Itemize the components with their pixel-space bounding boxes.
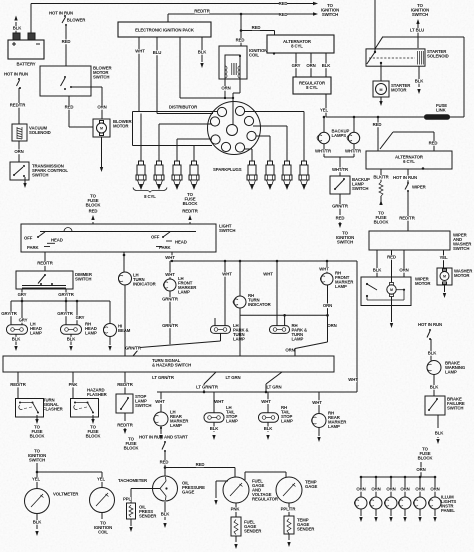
- stop lamp switch S7: [116, 394, 151, 413]
- wire LH turn ind feed: [123, 252, 126, 272]
- svg-text:RED/TR: RED/TR: [117, 382, 133, 387]
- vacuum solenoid SOL1: [12, 124, 51, 141]
- ground washer motor: [443, 285, 446, 298]
- svg-text:LAMP: LAMP: [233, 337, 245, 342]
- ground LH head lamp: [12, 334, 22, 351]
- svg-text:PANEL: PANEL: [441, 508, 455, 513]
- illum lamp L18: [369, 497, 382, 509]
- turn signal hazard switch S6: [3, 356, 334, 372]
- svg-text:SWITCH: SWITCH: [75, 277, 91, 282]
- fuel gage sender R2: [231, 517, 262, 536]
- wire stop switch drop: [117, 372, 133, 394]
- svg-text:WHT: WHT: [261, 399, 271, 404]
- svg-text:6 CYL: 6 CYL: [403, 159, 415, 164]
- RH tail stop lamp L12: [259, 405, 294, 424]
- LH rear marker lamp L10: [153, 410, 189, 429]
- svg-text:RED/TR: RED/TR: [10, 103, 26, 108]
- svg-text:DISTRIBUTOR: DISTRIBUTOR: [169, 105, 198, 110]
- svg-text:WHT: WHT: [319, 267, 329, 272]
- svg-text:LINK: LINK: [436, 108, 447, 113]
- wire plug feed 4: [193, 146, 195, 162]
- svg-text:LT BLU: LT BLU: [410, 28, 424, 33]
- svg-text:HEAD: HEAD: [175, 240, 187, 245]
- label TO FUSE BLOCK illum: [418, 447, 434, 461]
- wire RH rear marker drop: [312, 392, 322, 414]
- wire LH turn ind down: [124, 285, 126, 356]
- light switch internals right: [151, 232, 187, 250]
- svg-text:ORN: ORN: [400, 487, 409, 492]
- svg-text:WHT: WHT: [263, 272, 273, 277]
- fuse link FL1: [424, 103, 450, 120]
- svg-text:ORN: ORN: [416, 467, 425, 472]
- svg-text:GRY/TR: GRY/TR: [58, 292, 74, 297]
- wire battery to top rail: [31, 4, 315, 34]
- svg-text:GRN/TR: GRN/TR: [162, 297, 179, 302]
- washer motor M4: [437, 268, 473, 285]
- svg-text:RED/TR: RED/TR: [10, 382, 26, 387]
- svg-text:BLK: BLK: [435, 431, 445, 436]
- label HOT IN RUN blower feed: [49, 11, 86, 23]
- wire plug feed 3: [177, 139, 212, 161]
- spark plug P3: [172, 161, 182, 189]
- wire alt1 ORN: [306, 53, 315, 77]
- wire distributor loop left: [133, 112, 213, 146]
- svg-text:RED/TR: RED/TR: [399, 216, 415, 221]
- wire distributor WHT bundle: [139, 112, 217, 114]
- wire oil gauge feed: [160, 451, 169, 476]
- switch wiper feed: [405, 182, 427, 192]
- ground LH tail: [210, 422, 220, 440]
- svg-text:RED: RED: [252, 25, 261, 30]
- label TACHOMETER: [118, 478, 148, 483]
- svg-text:SWITCH: SWITCH: [93, 75, 109, 80]
- svg-text:FLASHER: FLASHER: [87, 392, 108, 397]
- svg-text:RED: RED: [279, 1, 288, 6]
- svg-text:PARK: PARK: [159, 245, 171, 250]
- svg-text:ORN: ORN: [371, 487, 380, 492]
- svg-text:HEAD: HEAD: [51, 238, 63, 243]
- svg-text:BLK/TR: BLK/TR: [373, 175, 389, 180]
- wiper motor M3: [361, 277, 431, 306]
- wire wiper switch feed: [399, 191, 415, 231]
- wire LH head feed 2: [19, 301, 28, 325]
- ground illum lamp 2: [374, 509, 377, 522]
- wire WHT bus: [170, 260, 357, 262]
- label SPARKPLUGS: [213, 167, 242, 172]
- wire LH park turn feed: [222, 260, 232, 326]
- svg-text:M: M: [390, 288, 393, 292]
- svg-text:LT GRN/TR: LT GRN/TR: [196, 385, 219, 390]
- hi beam indicator L7: [103, 324, 130, 337]
- svg-text:MOTOR: MOTOR: [391, 88, 407, 93]
- ground illum lamp 4: [403, 509, 406, 522]
- fuel gauge G4: [223, 477, 279, 503]
- svg-text:BLK: BLK: [322, 63, 332, 68]
- svg-text:RED: RED: [336, 216, 345, 221]
- ground temp sender: [287, 534, 290, 547]
- svg-text:HOT IN RUN: HOT IN RUN: [393, 175, 417, 180]
- label HOT IN RUN brake: [418, 322, 442, 327]
- svg-text:SWITCH: SWITCH: [337, 240, 353, 245]
- svg-text:COIL: COIL: [249, 53, 259, 58]
- wire rear lamp bus: [157, 385, 357, 392]
- brake failure switch S10: [425, 396, 465, 415]
- svg-text:PNK: PNK: [69, 382, 79, 387]
- svg-text:WHT: WHT: [348, 377, 358, 382]
- svg-text:8 CYL: 8 CYL: [144, 194, 156, 199]
- svg-text:RED/TR: RED/TR: [182, 209, 198, 214]
- wire RH head feed 1: [57, 301, 73, 325]
- svg-text:RED: RED: [89, 209, 98, 214]
- illum lamp L20: [398, 497, 411, 509]
- svg-text:LAMP: LAMP: [30, 331, 42, 336]
- wire brake lamp feed: [428, 339, 438, 361]
- svg-text:SWITCH: SWITCH: [453, 246, 469, 251]
- wire temp sender: [281, 503, 297, 516]
- svg-text:SOLENOID: SOLENOID: [29, 130, 51, 135]
- tachometer G3: [90, 488, 115, 513]
- illum lamp L17: [354, 497, 367, 509]
- wiper washer switch S9: [369, 231, 472, 251]
- ignition coil T1: [219, 46, 267, 79]
- svg-text:RED: RED: [279, 12, 288, 17]
- wire light switch feed left: [86, 194, 102, 225]
- wire to vacuum solenoid: [10, 88, 26, 124]
- wire brake switch out: [435, 415, 445, 444]
- label DISTRIBUTOR: [169, 105, 198, 110]
- wire solenoid feed: [375, 0, 383, 52]
- wire fuel to temp link: [245, 472, 286, 480]
- svg-text:M: M: [380, 88, 383, 92]
- wire headlamp bus: [11, 300, 110, 303]
- blower motor switch S3: [40, 66, 112, 97]
- svg-text:BLK: BLK: [12, 336, 22, 341]
- wire WHT riser: [348, 261, 358, 392]
- svg-text:SWITCH: SWITCH: [352, 186, 368, 191]
- svg-text:GRY: GRY: [19, 318, 28, 323]
- wire ORN park bus: [240, 314, 328, 326]
- svg-text:GRY: GRY: [18, 292, 27, 297]
- ground arrow trans switch: [23, 177, 26, 188]
- svg-text:OFF: OFF: [24, 236, 33, 241]
- svg-text:SWITCH: SWITCH: [447, 406, 463, 411]
- wire blower switch RED out: [65, 96, 93, 127]
- wire LT GRN diagonal: [225, 372, 282, 393]
- RH rear marker lamp L13: [311, 411, 347, 430]
- svg-text:BLOWER: BLOWER: [67, 18, 86, 23]
- svg-text:MOTOR: MOTOR: [454, 273, 470, 278]
- svg-text:RED: RED: [373, 122, 382, 127]
- svg-text:WHT: WHT: [312, 400, 322, 405]
- svg-text:COIL: COIL: [98, 530, 108, 535]
- label RED top rail: [279, 1, 288, 6]
- svg-text:ORN: ORN: [415, 487, 424, 492]
- svg-text:BLK: BLK: [373, 268, 383, 273]
- wire light switch feed right: [183, 192, 199, 224]
- svg-text:BLK: BLK: [161, 512, 171, 517]
- svg-text:LAMP: LAMP: [178, 290, 190, 295]
- wire dimmer GRY: [18, 289, 27, 301]
- wire washer YEL: [439, 250, 448, 269]
- wire backup lamp stubs: [323, 116, 356, 132]
- backup lamp switch S8: [330, 176, 370, 194]
- svg-text:RED: RED: [160, 460, 169, 465]
- svg-text:SOLENOID: SOLENOID: [427, 54, 449, 59]
- wire illum bus: [360, 476, 437, 479]
- svg-text:BLOCK: BLOCK: [418, 456, 434, 461]
- battery BLK ground: [13, 16, 23, 34]
- wire dimmer feed: [37, 252, 53, 271]
- svg-text:LAMP: LAMP: [85, 331, 97, 336]
- svg-text:GRY: GRY: [292, 63, 301, 68]
- svg-text:GAGE: GAGE: [182, 490, 194, 495]
- blower motor M1: [93, 119, 132, 137]
- svg-text:ORN: ORN: [430, 487, 439, 492]
- svg-text:FLASHER: FLASHER: [43, 407, 64, 412]
- oil press sender R1: [127, 503, 158, 519]
- wire illum feed: [416, 462, 425, 477]
- svg-text:PARK: PARK: [27, 245, 39, 250]
- wire alt2 fuse stub: [374, 196, 390, 225]
- ground voltmeter: [33, 514, 43, 537]
- wire illum lamp drop 2: [371, 477, 380, 497]
- RH front marker lamp L4: [320, 271, 354, 290]
- wire TS flasher drop: [10, 372, 26, 398]
- wire LH front marker down: [162, 291, 179, 344]
- LH tail stop lamp L11: [204, 405, 238, 424]
- wire RH front marker feed: [319, 260, 329, 273]
- svg-text:RED: RED: [62, 39, 71, 44]
- svg-text:LAMPS: LAMPS: [332, 133, 347, 138]
- wire plug feed 2: [159, 124, 212, 161]
- wire illum lamp drop 4: [400, 477, 409, 497]
- svg-text:BATTERY: BATTERY: [16, 62, 35, 67]
- svg-text:ORN: ORN: [14, 149, 23, 154]
- wire GRN/TR diagonal: [125, 334, 220, 357]
- wire alt1 GRY: [292, 53, 301, 77]
- svg-text:ORN: ORN: [221, 86, 230, 91]
- LH front marker lamp L2: [163, 276, 197, 295]
- electronic ignition pack U1: [118, 22, 211, 37]
- wire solenoid BLK: [415, 66, 425, 94]
- turn signal flasher F1: [16, 398, 64, 418]
- svg-text:BLOCK: BLOCK: [183, 201, 199, 206]
- svg-text:HOT IN RUN: HOT IN RUN: [4, 72, 28, 77]
- svg-text:BLK: BLK: [415, 79, 425, 84]
- wire backup lamp merge: [315, 144, 362, 176]
- svg-text:GRY/TR: GRY/TR: [57, 311, 73, 316]
- ground fuel sender: [234, 536, 237, 549]
- illum lamp L22: [428, 497, 441, 509]
- svg-text:BLK: BLK: [33, 520, 43, 525]
- wire solenoid to trans switch: [14, 141, 23, 162]
- resistor R4: [379, 182, 383, 196]
- svg-text:REGULATOR: REGULATOR: [252, 497, 279, 502]
- svg-text:RED/TR: RED/TR: [117, 423, 133, 428]
- svg-text:BLU: BLU: [153, 50, 162, 55]
- svg-text:BLOCK: BLOCK: [124, 446, 140, 451]
- svg-text:BLOCK: BLOCK: [30, 434, 46, 439]
- svg-text:ORN: ORN: [97, 105, 106, 110]
- voltmeter G2: [25, 489, 80, 514]
- svg-text:GRN/TR: GRN/TR: [162, 323, 179, 328]
- svg-text:YEL: YEL: [97, 477, 106, 482]
- ground illum lamp 5: [418, 509, 421, 522]
- transmission spark control switch S2: [10, 162, 68, 180]
- starter motor M2: [373, 81, 411, 97]
- svg-text:YEL: YEL: [439, 255, 448, 260]
- svg-text:RED: RED: [387, 255, 396, 260]
- wire brake switch feed: [430, 375, 440, 397]
- switch hot-in-run-start: [162, 441, 166, 452]
- wire RH turn ind down: [239, 308, 241, 356]
- temp gage sender R3: [284, 516, 315, 534]
- wire LH head feed 1: [1, 301, 17, 325]
- wire pack BLU: [153, 37, 162, 114]
- svg-text:MOTOR: MOTOR: [415, 281, 431, 286]
- svg-text:HOT IN RUN: HOT IN RUN: [49, 11, 73, 16]
- svg-text:BLK: BLK: [67, 336, 77, 341]
- svg-text:BEAM: BEAM: [118, 328, 131, 333]
- wire red bus gauges: [165, 462, 235, 468]
- svg-text:BLOCK: BLOCK: [374, 220, 390, 225]
- wire dimmer GRY/TR: [58, 289, 74, 301]
- svg-text:LAMP: LAMP: [328, 424, 340, 429]
- wire WHT drop: [165, 252, 175, 261]
- ground wiper motor: [390, 297, 393, 329]
- svg-text:INDICATOR: INDICATOR: [133, 282, 157, 287]
- svg-text:SWITCH: SWITCH: [135, 403, 151, 408]
- wire voltmeter bus: [37, 463, 102, 472]
- svg-text:YEL: YEL: [32, 477, 41, 482]
- svg-text:LAMP: LAMP: [335, 284, 347, 289]
- spark plug P5: [247, 161, 257, 189]
- wire pack BLK stub: [198, 37, 208, 68]
- svg-text:LAMP: LAMP: [445, 370, 457, 375]
- wire illum lamp drop 6: [430, 477, 439, 497]
- illum lamp L19: [384, 497, 397, 509]
- label 8 CYL brace: [133, 188, 167, 200]
- wire pack third: [180, 37, 233, 98]
- svg-text:8 CYL: 8 CYL: [306, 85, 318, 90]
- wire plug feed 1: [140, 114, 142, 162]
- spark plug P8: [299, 161, 309, 189]
- svg-text:BLK: BLK: [430, 385, 440, 390]
- wire RH tail drop: [261, 392, 271, 413]
- backup lamp L15: [331, 129, 360, 144]
- brake warning lamp L16: [427, 361, 466, 375]
- oil pressure gauge G1: [153, 476, 206, 501]
- wire plug feed 5: [244, 112, 304, 162]
- svg-text:GRN/TR: GRN/TR: [125, 346, 142, 351]
- wire LT BLU: [410, 19, 425, 48]
- svg-text:WHT/TR: WHT/TR: [315, 149, 332, 154]
- label HOT IN RUN AND START: [139, 435, 188, 440]
- svg-text:PPL: PPL: [123, 497, 132, 502]
- wire plug feed 6: [253, 126, 287, 161]
- LH turn indicator L1: [118, 272, 156, 287]
- svg-text:WHT: WHT: [165, 255, 175, 260]
- LH park turn lamp L8: [211, 318, 249, 342]
- svg-text:RED/TR: RED/TR: [37, 261, 53, 266]
- wire blower switch ORN out: [71, 87, 107, 119]
- wire stop switch out: [117, 413, 139, 451]
- wire blower feed: [62, 26, 71, 66]
- svg-text:VOLTMETER: VOLTMETER: [53, 492, 79, 497]
- temp gauge G5: [276, 477, 317, 503]
- svg-text:GRY/TR: GRY/TR: [1, 311, 17, 316]
- ground LH rear marker: [159, 426, 162, 440]
- svg-text:M: M: [443, 275, 446, 279]
- label HOT IN RUN left: [4, 72, 28, 77]
- wire plug feed 7: [256, 136, 270, 161]
- wire fuel gauge case: [214, 481, 228, 505]
- distributor D1: [208, 102, 261, 155]
- svg-text:HOT IN RUN: HOT IN RUN: [418, 322, 442, 327]
- ground illum lamp 1: [359, 509, 362, 522]
- svg-text:8 CYL: 8 CYL: [291, 44, 303, 49]
- wire RH head feed 2: [76, 301, 85, 325]
- wire illum lamp drop 3: [386, 477, 395, 497]
- wire fuel sender: [231, 503, 241, 517]
- switch hot-in-run left: [17, 78, 22, 89]
- starter solenoid K1: [366, 49, 449, 66]
- svg-text:ELECTRONIC IGNITION PACK: ELECTRONIC IGNITION PACK: [135, 27, 195, 32]
- svg-text:GAGE: GAGE: [305, 484, 317, 489]
- hazard flasher F2: [71, 388, 108, 418]
- wire alternator2 sense: [380, 132, 437, 151]
- svg-text:PPL/TR: PPL/TR: [281, 507, 297, 512]
- svg-text:BLOCK: BLOCK: [86, 203, 102, 208]
- svg-text:OFF: OFF: [151, 235, 160, 240]
- svg-text:SENDER: SENDER: [244, 529, 262, 534]
- svg-text:WHT: WHT: [222, 272, 232, 277]
- ground hi beam: [108, 337, 111, 352]
- svg-text:GRY: GRY: [76, 315, 85, 320]
- wire starter motor feed: [380, 64, 382, 81]
- svg-text:BLK: BLK: [13, 26, 23, 31]
- wire pack feed: [168, 9, 315, 22]
- wire LH rear marker drop: [155, 392, 165, 412]
- ground RH head lamp: [67, 334, 77, 351]
- switch brake feed: [427, 329, 431, 340]
- alternator A1: [267, 35, 334, 53]
- wire ORN diagonal: [285, 315, 336, 356]
- wire illum lamp drop 1: [356, 477, 365, 497]
- label TO IGNITION SWITCH voltmeter: [28, 449, 46, 463]
- svg-text:WHT: WHT: [214, 399, 224, 404]
- svg-text:MOTOR: MOTOR: [113, 124, 129, 129]
- wire hi beam feed: [109, 301, 111, 324]
- svg-text:YEL: YEL: [320, 108, 329, 113]
- wire TS flasher out: [30, 415, 46, 439]
- wire main rail: [326, 37, 464, 117]
- LH head lamp L5: [7, 322, 43, 336]
- svg-text:ORN: ORN: [386, 487, 395, 492]
- svg-text:SENDER: SENDER: [139, 514, 157, 519]
- svg-text:ORN: ORN: [399, 268, 408, 273]
- wire coil feed: [236, 13, 245, 46]
- svg-text:LAMP: LAMP: [292, 337, 304, 342]
- wire voltmeter drop: [32, 471, 41, 489]
- svg-text:ORN: ORN: [306, 63, 315, 68]
- wire tach drop: [97, 472, 106, 488]
- spark plug P1: [136, 161, 146, 189]
- wire alt2 BLK/TR: [373, 169, 389, 182]
- svg-text:LT GRN: LT GRN: [266, 385, 281, 390]
- label RED light switch feed: [89, 209, 98, 214]
- svg-text:ORN: ORN: [323, 303, 332, 308]
